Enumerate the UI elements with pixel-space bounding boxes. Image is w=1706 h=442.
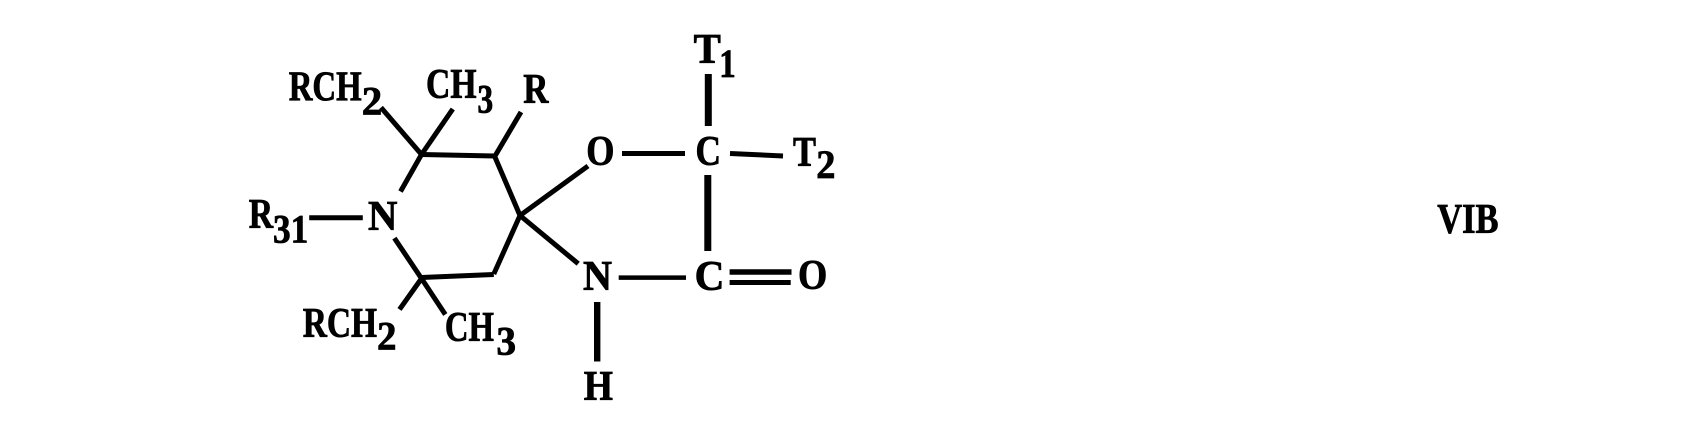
svg-text:RCH: RCH bbox=[289, 65, 362, 111]
bond N-H vertical bbox=[594, 302, 600, 362]
svg-text:2: 2 bbox=[362, 79, 383, 124]
svg-text:T: T bbox=[793, 130, 816, 176]
bond spiro carbon to bottom-right vertex bbox=[494, 216, 520, 275]
bond spiro carbon to amide N bbox=[520, 216, 578, 264]
svg-text:VIB: VIB bbox=[1437, 197, 1498, 243]
bond CH3 bottom to ring bbox=[422, 279, 446, 315]
svg-text:N: N bbox=[583, 254, 612, 300]
svg-text:2: 2 bbox=[816, 142, 835, 187]
bond C-C vertical bbox=[704, 175, 711, 251]
bond ring bottom edge bbox=[422, 275, 494, 278]
svg-text:31: 31 bbox=[273, 207, 308, 252]
svg-text:O: O bbox=[586, 129, 614, 175]
svg-text:RCH: RCH bbox=[303, 301, 377, 347]
bond ring top edge bbox=[422, 155, 495, 157]
double bond C=O upper line bbox=[730, 269, 792, 275]
bond spiro carbon to O bbox=[520, 166, 588, 216]
bond R31-N bbox=[309, 215, 363, 220]
svg-text:C: C bbox=[696, 129, 722, 175]
svg-text:3: 3 bbox=[477, 76, 493, 121]
bond N to ring top-left vertex bbox=[401, 155, 422, 192]
bond RCH2 top to ring bbox=[381, 108, 422, 155]
svg-text:T: T bbox=[694, 27, 721, 73]
bond R to ring bbox=[495, 112, 521, 156]
svg-text:H: H bbox=[584, 364, 613, 410]
svg-text:2: 2 bbox=[377, 314, 397, 359]
svg-text:CH: CH bbox=[426, 62, 477, 108]
svg-text:3: 3 bbox=[496, 318, 516, 363]
svg-text:N: N bbox=[368, 194, 397, 240]
bond ring top-right vertex to spiro carbon bbox=[495, 156, 521, 216]
svg-text:O: O bbox=[798, 253, 827, 299]
bond CH3 top to ring bbox=[422, 109, 453, 155]
double bond C=O lower line bbox=[730, 280, 791, 285]
svg-text:CH: CH bbox=[445, 305, 494, 351]
bond C-T2 bbox=[730, 154, 783, 157]
svg-text:1: 1 bbox=[719, 41, 736, 86]
bond RCH2 bottom to ring bbox=[400, 279, 422, 310]
bond bottom-left vertex to N bbox=[394, 238, 421, 278]
bond T1-C vertical bbox=[705, 74, 712, 126]
svg-text:C: C bbox=[695, 254, 725, 300]
bond N-C amide bbox=[619, 275, 686, 280]
svg-text:R: R bbox=[523, 67, 549, 113]
bond O-C bbox=[622, 151, 685, 156]
svg-text:R: R bbox=[249, 192, 274, 238]
